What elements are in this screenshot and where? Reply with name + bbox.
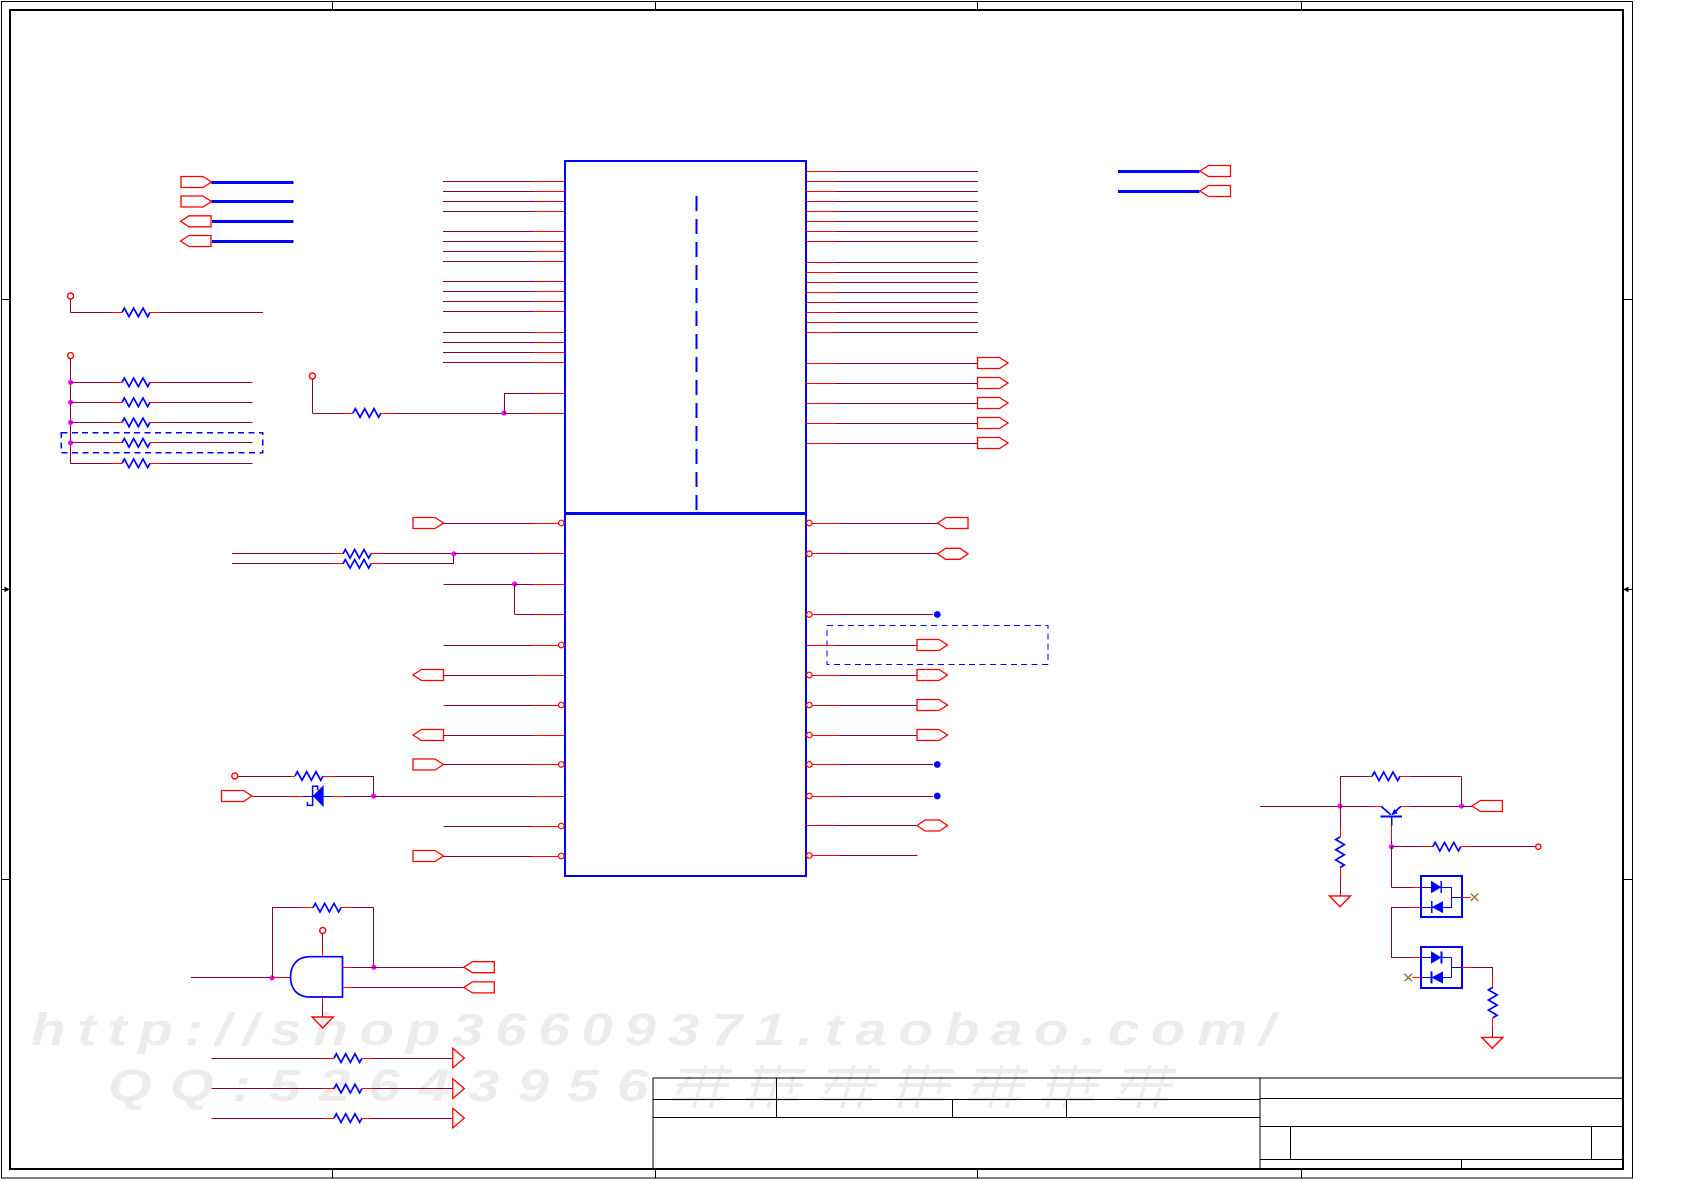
net dot row796 — [807, 793, 941, 800]
wire D2 to D3 — [1391, 907, 1421, 957]
node stub A — [68, 293, 111, 313]
watermark line1 — [31, 1004, 1287, 1054]
port row735 left — [413, 730, 565, 741]
resistor R5 branch — [68, 439, 253, 448]
wire Q1 base down — [1389, 825, 1394, 849]
U1 right port pin 2 — [806, 378, 1008, 389]
title block right table — [1260, 1078, 1623, 1169]
wire row705 — [444, 702, 565, 708]
resistor R18 to gnd — [1462, 967, 1497, 1037]
watermark line2 cjk — [672, 1065, 1176, 1108]
resistor R14 line — [212, 1108, 465, 1128]
wire R7 to U1 — [394, 393, 565, 416]
port row735 right — [807, 730, 948, 741]
wire R10 down — [335, 776, 374, 796]
resistor R1 — [111, 308, 161, 317]
node stub C — [309, 373, 343, 414]
bus port 1 — [181, 177, 294, 188]
port row523 left — [413, 518, 564, 529]
wire row826 — [444, 823, 565, 829]
port row675 left — [413, 670, 565, 681]
diode pack D3 — [1421, 947, 1462, 988]
svg-text:QQ:52643956: QQ:52643956 — [108, 1060, 667, 1110]
nc cross D3 — [1405, 974, 1422, 982]
resistor R8 — [232, 550, 383, 559]
border mid arrow left — [1, 587, 10, 593]
gate U2 — [291, 957, 343, 997]
diode pack D2 — [1421, 876, 1462, 917]
port row645 right — [806, 640, 948, 651]
resistor R15 feedback — [1340, 772, 1462, 806]
port row553 right — [807, 548, 969, 559]
wire gate input — [191, 975, 291, 980]
resistor R16 to gnd — [1336, 806, 1345, 896]
resistor R9 — [232, 560, 383, 569]
bus port 2 — [181, 196, 294, 207]
transistor Q1 — [1340, 806, 1402, 825]
node stub B — [68, 353, 74, 464]
resistor R6 branch — [71, 459, 253, 468]
wire row584 — [444, 581, 565, 614]
resistor R13 line — [212, 1079, 465, 1099]
port Q1 right — [1472, 801, 1503, 812]
wire D1 to U1 — [332, 793, 565, 798]
nc cross D2 — [1462, 893, 1478, 901]
bus port 6 — [1118, 186, 1231, 197]
port row765 left — [413, 759, 564, 770]
wire Q1 input — [1260, 803, 1343, 808]
U1 right port pin 5 — [806, 438, 1008, 449]
port row856 left — [413, 851, 564, 862]
port row705 right — [807, 700, 948, 711]
bus port 5 — [1118, 166, 1231, 177]
IC U1 section divider — [565, 512, 807, 515]
gate output1 — [343, 962, 495, 973]
U1 upper-right pin wires — [806, 172, 978, 333]
net dot row615 — [807, 611, 941, 618]
title block left table — [653, 1078, 1260, 1169]
node stub F — [1471, 844, 1541, 849]
resistor R4 branch — [68, 418, 253, 427]
port row523 right — [807, 518, 969, 529]
ground D3 — [1482, 1037, 1503, 1048]
resistor R11 feedback — [272, 903, 374, 978]
dashed highlight box right — [827, 626, 1048, 665]
U1 right port pin 4 — [806, 418, 1008, 429]
port row796 left — [222, 791, 304, 802]
port row675 right — [807, 670, 948, 681]
watermark line2 digits — [108, 1060, 667, 1110]
dashed highlight box left — [61, 433, 262, 453]
U1 right port pin 1 — [806, 358, 1008, 369]
resistor R17 — [1392, 842, 1471, 851]
node stub D — [232, 773, 292, 779]
bus port 4 — [181, 236, 294, 247]
resistor R3 branch — [68, 398, 253, 407]
resistor R10 — [292, 772, 335, 781]
gate output2 — [343, 982, 495, 993]
wire Q1 collector out — [1401, 803, 1472, 808]
zener diode D1 — [303, 786, 332, 806]
node stub E — [320, 928, 326, 957]
wire row856 right — [807, 853, 918, 859]
svg-text:http://shop36609371.taobao.com: http://shop36609371.taobao.com/ — [31, 1004, 1287, 1054]
IC U1 dashed center line — [696, 196, 698, 511]
wire Q1 to D2 — [1392, 847, 1422, 888]
resistor R7 — [343, 409, 394, 418]
net dot row765 — [807, 761, 941, 768]
ground gate — [312, 997, 333, 1028]
wire R8R9 join — [383, 551, 565, 564]
border mid arrow right — [1623, 587, 1632, 593]
port row826 right — [806, 820, 948, 831]
wire row645 — [444, 642, 565, 648]
resistor R2 branch — [68, 378, 253, 387]
resistor R12 line — [212, 1048, 465, 1068]
ground Q1 — [1330, 896, 1351, 907]
wire R1 out — [161, 312, 263, 314]
U1 upper-left pin wires — [443, 182, 565, 363]
U1 right port pin 3 — [806, 398, 1008, 409]
IC U1 body — [565, 161, 806, 876]
bus port 3 — [181, 216, 294, 227]
